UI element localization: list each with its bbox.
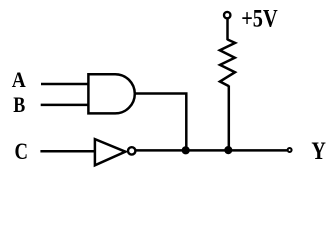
svg-text:+5V: +5V xyxy=(241,6,278,33)
wire B xyxy=(41,104,89,107)
wire inverter output to terminal Y xyxy=(136,149,287,152)
resistor R1 top stub xyxy=(226,19,229,40)
wire A xyxy=(41,83,89,86)
wire C xyxy=(40,150,95,153)
junction dot (AND output joins output wire) xyxy=(182,146,190,154)
svg-text:C: C xyxy=(15,139,29,164)
junction dot (resistor joins output wire) xyxy=(224,146,232,154)
resistor R1 zigzag xyxy=(220,40,235,87)
svg-text:A: A xyxy=(12,67,27,92)
inverter U2 bubble xyxy=(128,147,135,154)
+5V open terminal xyxy=(224,12,230,18)
svg-text:B: B xyxy=(13,92,25,117)
wire AND output to junction xyxy=(135,94,187,151)
inverter U2 triangle xyxy=(95,139,126,165)
and gate U1 xyxy=(88,74,134,113)
svg-text:Y: Y xyxy=(311,138,326,165)
resistor R1 bottom stub / wire to junction xyxy=(228,86,231,151)
output open terminal Y xyxy=(288,148,292,152)
